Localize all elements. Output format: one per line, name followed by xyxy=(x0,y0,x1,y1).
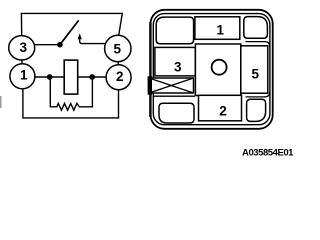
svg-text:5: 5 xyxy=(252,66,260,81)
svg-text:1: 1 xyxy=(20,67,28,82)
svg-text:1: 1 xyxy=(217,23,225,38)
svg-text:5: 5 xyxy=(113,41,121,56)
svg-text:2: 2 xyxy=(219,103,227,118)
svg-text:3: 3 xyxy=(19,40,27,55)
svg-text:A035854E01: A035854E01 xyxy=(242,148,294,159)
svg-text:2: 2 xyxy=(116,69,124,84)
svg-text:3: 3 xyxy=(174,60,182,75)
